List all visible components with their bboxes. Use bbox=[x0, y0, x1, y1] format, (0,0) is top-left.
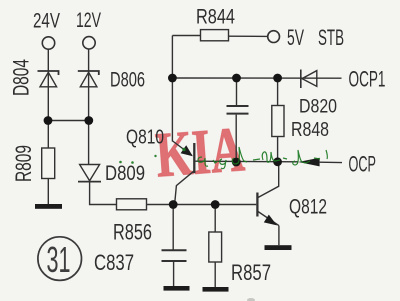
wire capacitor bottom lead bbox=[235, 115, 237, 162]
node: bottom rail R857 bbox=[211, 200, 220, 209]
resistor R848 bbox=[272, 106, 284, 137]
svg-text:R857: R857 bbox=[231, 260, 271, 285]
resistor R857 bbox=[209, 232, 222, 262]
node: 24V/12V bus junction right bbox=[84, 116, 93, 125]
node: base line R848/Q812 bbox=[273, 157, 282, 166]
base bar bbox=[193, 143, 195, 173]
wire C837 drop bbox=[172, 205, 174, 250]
svg-text:STB: STB bbox=[318, 25, 344, 50]
terminal 12V bbox=[83, 37, 95, 49]
svg-text:C837: C837 bbox=[94, 250, 134, 275]
wire R857 to ground bbox=[214, 262, 216, 287]
wire bottom rail bbox=[147, 204, 257, 206]
node: bottom rail C837 bbox=[169, 200, 178, 209]
node: top rail left bbox=[168, 74, 177, 83]
transistor Q810 bbox=[173, 141, 195, 205]
transistor Q812 bbox=[257, 163, 279, 246]
resistor R856 bbox=[117, 199, 147, 210]
svg-text:OCP: OCP bbox=[349, 152, 377, 177]
green annotation scribble bbox=[119, 147, 327, 169]
page number circle 31 bbox=[38, 237, 82, 281]
svg-text:D806: D806 bbox=[110, 69, 145, 92]
svg-text:12V: 12V bbox=[76, 9, 101, 32]
terminal 24V bbox=[42, 37, 54, 49]
OCP arrow bbox=[298, 158, 342, 167]
wire main vertical from R844 down to Q810 bbox=[171, 36, 173, 142]
wire capacitor top lead bbox=[236, 78, 238, 105]
svg-text:OCP1: OCP1 bbox=[349, 67, 386, 92]
terminal 5V STB bbox=[268, 31, 280, 43]
diode D820 bbox=[301, 70, 317, 89]
wire C837 to ground bbox=[173, 262, 175, 286]
wire D806 to D809 bbox=[88, 72, 90, 165]
collector wire bbox=[175, 171, 195, 205]
KIA watermark bbox=[153, 114, 247, 191]
node: top rail R848 bbox=[273, 74, 282, 83]
svg-text:31: 31 bbox=[47, 239, 71, 280]
wire R848 bottom lead bbox=[277, 137, 279, 162]
wire top rail bbox=[172, 77, 341, 79]
svg-text:R809: R809 bbox=[11, 145, 36, 182]
wire Q810 base line bbox=[195, 160, 298, 163]
node: base line capacitor bbox=[232, 158, 241, 167]
wire 12V to D806 bbox=[88, 49, 90, 71]
capacitor C837 bbox=[162, 250, 187, 261]
node: 24V/12V bus junction left bbox=[44, 116, 53, 125]
emitter wire bbox=[173, 141, 192, 156]
svg-text:D804: D804 bbox=[9, 59, 34, 96]
collector wire bbox=[258, 163, 279, 198]
diode D809 bbox=[78, 165, 101, 182]
svg-text:R848: R848 bbox=[291, 119, 329, 141]
svg-text:D809: D809 bbox=[105, 162, 145, 185]
svg-text:24V: 24V bbox=[33, 10, 60, 33]
wire junction link bbox=[48, 120, 88, 122]
diode D804 bbox=[38, 71, 59, 87]
base bar bbox=[256, 193, 258, 217]
wire R857 drop bbox=[214, 205, 216, 233]
svg-text:Q812: Q812 bbox=[289, 196, 327, 219]
node: top rail capacitor bbox=[232, 74, 241, 83]
scan artifact bottom bbox=[247, 298, 255, 301]
svg-text:R856: R856 bbox=[113, 220, 152, 245]
svg-text:5V: 5V bbox=[287, 25, 304, 50]
resistor R809 bbox=[42, 148, 55, 179]
wire R844 to 5V STB terminal bbox=[229, 35, 268, 37]
diode D806 bbox=[78, 71, 99, 87]
wire D809 to rail bbox=[90, 182, 117, 204]
emitter wire bbox=[258, 212, 279, 226]
svg-text:R844: R844 bbox=[196, 6, 235, 29]
wire 24V to D804 bbox=[47, 49, 49, 71]
ground bbox=[164, 286, 190, 291]
resistor R844 bbox=[201, 30, 229, 41]
ground bbox=[203, 287, 229, 292]
ground bbox=[35, 204, 62, 209]
wire R848 top lead bbox=[277, 78, 279, 106]
wire R809 to ground bbox=[47, 179, 49, 205]
wire R844 left lead bbox=[172, 35, 200, 37]
svg-text:Q810: Q810 bbox=[126, 127, 164, 149]
wire D804 to junction and R809 bbox=[47, 72, 49, 148]
svg-text:KIA: KIA bbox=[153, 114, 247, 191]
ground bbox=[265, 245, 292, 250]
capacitor (unlabeled) bbox=[227, 106, 249, 114]
svg-text:D820: D820 bbox=[299, 97, 337, 118]
